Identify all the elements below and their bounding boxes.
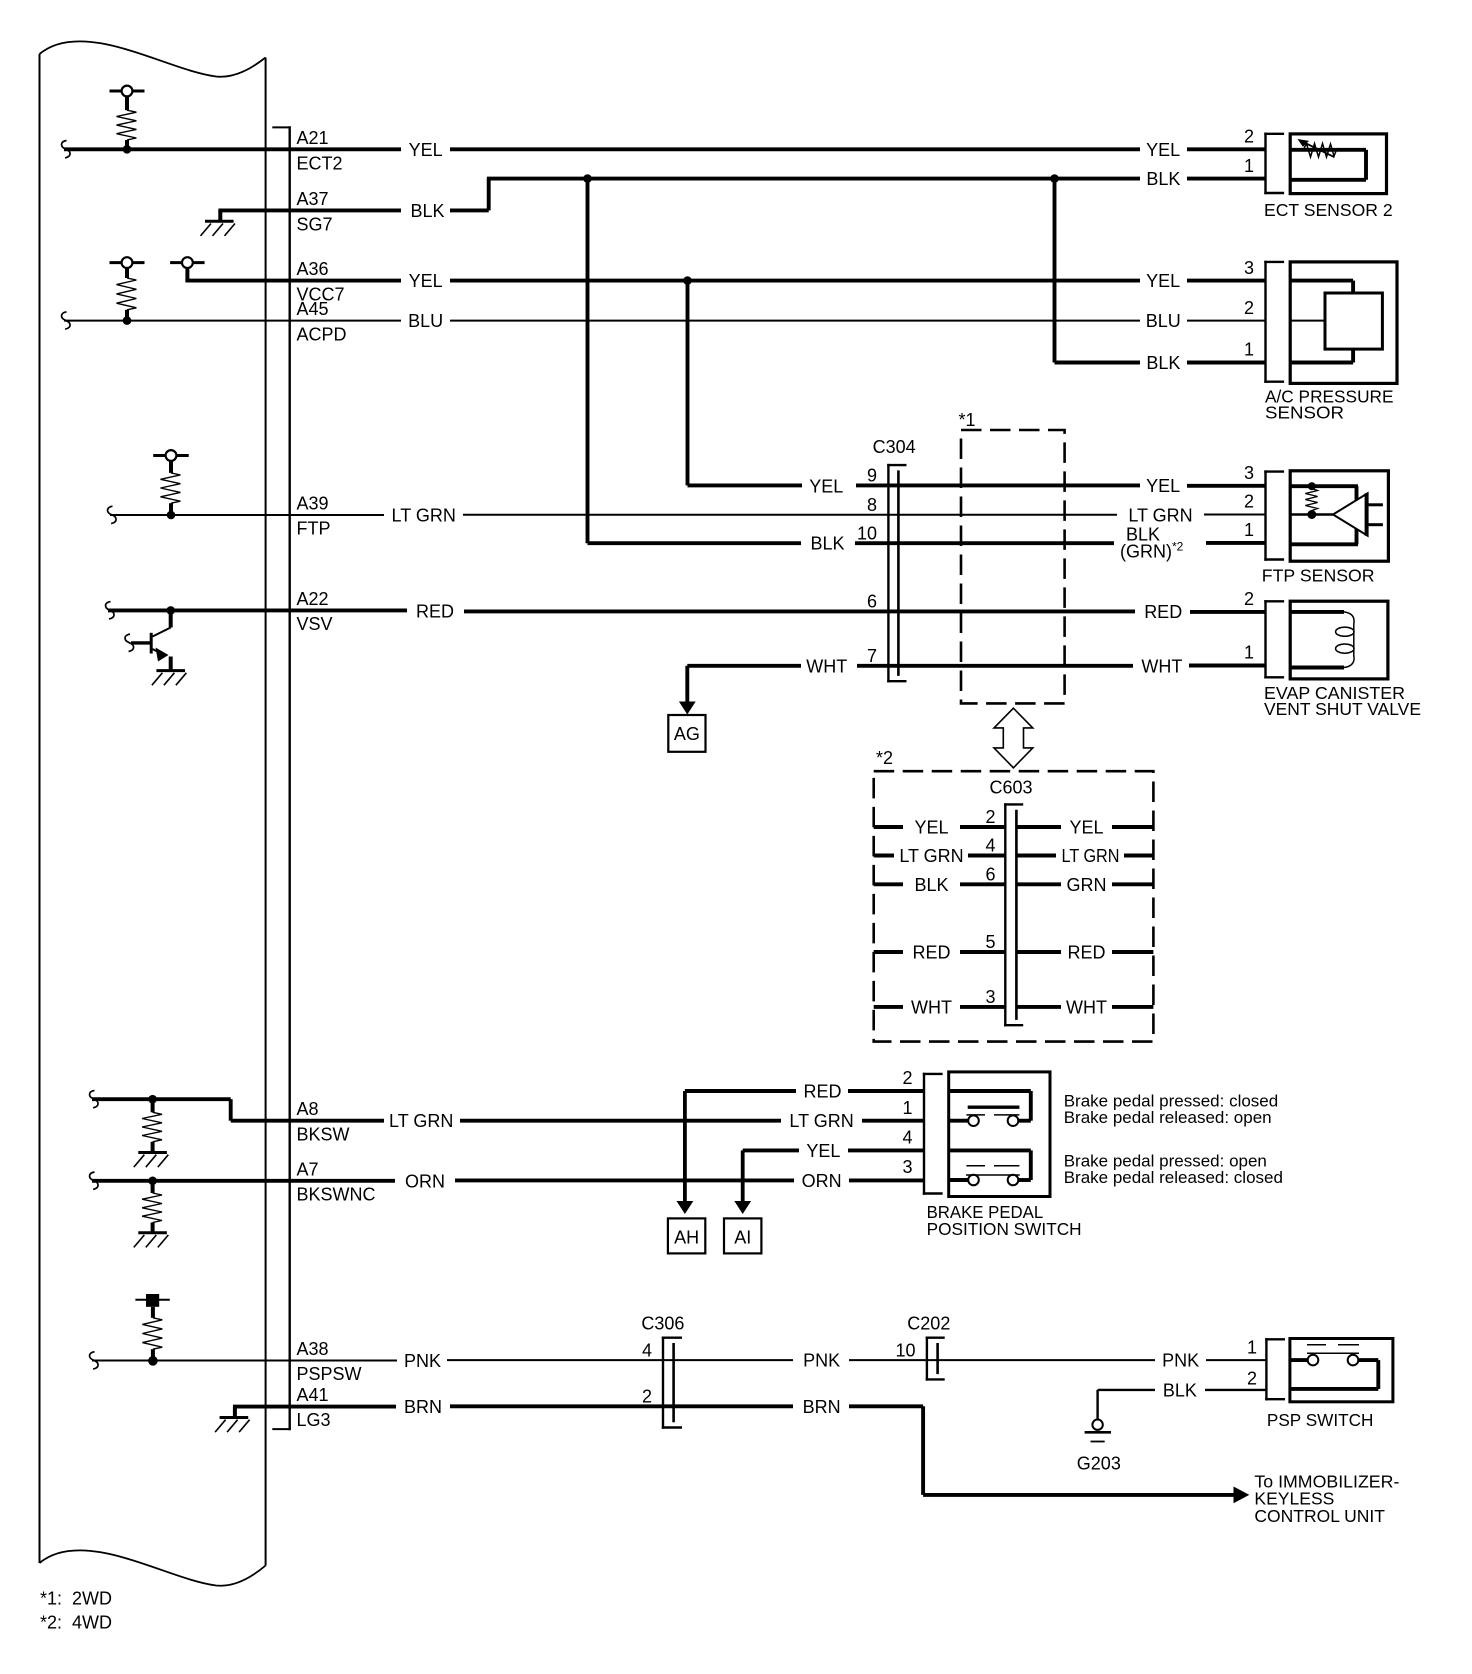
brake switch upper contact (pins 2-1) bbox=[949, 1091, 1031, 1126]
wire A37 BLK segment (ECM) bbox=[218, 208, 401, 212]
solenoid coil EVAP valve bbox=[1290, 612, 1354, 668]
label RED (A22) bbox=[416, 601, 454, 621]
wire C603 pin 2 right stub bbox=[1112, 825, 1153, 829]
wire C603 pin 5 left segment bbox=[960, 950, 1005, 954]
svg-text:7: 7 bbox=[867, 646, 877, 666]
connector bracket EVAP valve bbox=[1264, 600, 1284, 678]
svg-text:AG: AG bbox=[674, 724, 700, 744]
wire C603 pin 6 right segment bbox=[1016, 882, 1061, 886]
pin label A36/VCC7 bbox=[297, 259, 345, 304]
ECM/PCM torn top edge (wave) bbox=[40, 41, 266, 76]
wire BLK to C304 bbox=[588, 541, 802, 545]
label BLK (ECT sensor 2 pin 1) bbox=[1146, 169, 1180, 189]
pull-down resistor at pin A8 bbox=[134, 1095, 169, 1167]
label BLK (C603 pin 6 left) bbox=[914, 875, 948, 895]
svg-text:C304: C304 bbox=[873, 437, 916, 457]
wire C603 pin 2 left segment bbox=[960, 825, 1005, 829]
label YEL (ECT sensor 2 pin 2) bbox=[1146, 140, 1180, 160]
label RED (C603 pin 5 right) bbox=[1067, 943, 1105, 963]
svg-text:C202: C202 bbox=[907, 1313, 950, 1333]
wire A7 ORN segment bbox=[455, 1178, 794, 1182]
svg-text:1: 1 bbox=[1244, 340, 1254, 360]
connector bracket FTP sensor bbox=[1264, 470, 1284, 560]
label BRN (A41) bbox=[404, 1397, 442, 1417]
wire RED stub to EVAP valve bbox=[1190, 610, 1266, 614]
wire A21 YEL stub to ECT sensor 2 bbox=[1187, 147, 1266, 151]
svg-text:PNK: PNK bbox=[404, 1351, 441, 1371]
svg-text:ECT SENSOR 2: ECT SENSOR 2 bbox=[1264, 200, 1393, 220]
ECM pin header bracket bbox=[272, 126, 289, 1430]
label YEL (A21 left) bbox=[409, 140, 443, 160]
label ORN (brake switch pin 3) bbox=[802, 1171, 842, 1191]
svg-text:2: 2 bbox=[642, 1387, 652, 1407]
svg-text:C603: C603 bbox=[990, 778, 1033, 798]
wire A8 LT GRN segment bbox=[460, 1119, 781, 1123]
wire C603 pin 5 right stub bbox=[1112, 950, 1153, 954]
wire A38 PNK segment (ECM) bbox=[92, 1360, 397, 1362]
wire BLK drop to A-C pressure sensor bbox=[1055, 179, 1141, 363]
wire A41 BRN segment (ECM) bbox=[233, 1405, 396, 1409]
svg-text:G203: G203 bbox=[1077, 1453, 1121, 1473]
label GRN (C603 pin 6 right) bbox=[1067, 875, 1107, 895]
pull-down resistor at pin A7 bbox=[134, 1177, 169, 1248]
connector C304 bbox=[887, 464, 906, 683]
svg-text:RED: RED bbox=[912, 943, 950, 963]
svg-text:WHT: WHT bbox=[1141, 656, 1182, 676]
wire YEL corner to brake switch bbox=[743, 1150, 799, 1201]
wire break A45 bbox=[62, 312, 71, 329]
svg-text:FTP SENSOR: FTP SENSOR bbox=[1262, 566, 1375, 586]
wire RED corner to brake switch bbox=[685, 1091, 796, 1201]
pin number 3 (FTP sensor) bbox=[1244, 463, 1254, 483]
label BLK (A37) bbox=[410, 201, 444, 221]
pin number 1 (EVAP valve) bbox=[1244, 643, 1254, 663]
wire A22 RED segment bbox=[464, 609, 1135, 613]
connector C306 bbox=[662, 1337, 682, 1429]
label WHT (C304 pin 7) bbox=[806, 656, 847, 676]
svg-text:4: 4 bbox=[642, 1340, 652, 1360]
pin number 10 (C202) bbox=[895, 1340, 915, 1360]
pin number 4 (C603) bbox=[985, 836, 995, 856]
label *2 bbox=[876, 748, 893, 768]
svg-text:1: 1 bbox=[1244, 156, 1254, 176]
wire ORN stub to brake switch bbox=[849, 1178, 924, 1182]
component box A-C pressure sensor bbox=[1290, 262, 1397, 384]
pin label A8/BKSW bbox=[297, 1099, 350, 1144]
svg-text:PSPSW: PSPSW bbox=[297, 1364, 362, 1384]
svg-text:LG3: LG3 bbox=[297, 1410, 331, 1430]
wire A39 LT GRN segment bbox=[463, 514, 1117, 516]
svg-text:10: 10 bbox=[857, 523, 877, 543]
pin number 3 (A-C sensor) bbox=[1244, 258, 1254, 278]
label PNK (A38) bbox=[404, 1351, 441, 1371]
svg-text:YEL: YEL bbox=[914, 818, 948, 838]
wire WHT corner to C304 bbox=[687, 666, 801, 703]
ECM/PCM module left edge bbox=[39, 54, 41, 1563]
wire C603 pin 6 left segment bbox=[960, 882, 1005, 886]
double arrow (alternative link) bbox=[994, 708, 1033, 768]
connector box AI bbox=[724, 1218, 761, 1253]
wire YEL vertical drop bbox=[686, 281, 690, 486]
junction dot BLK bus / FTP branch bbox=[583, 174, 592, 183]
pin number 6 (C304) bbox=[867, 592, 877, 612]
label ECT SENSOR 2 bbox=[1264, 200, 1393, 220]
svg-text:YEL: YEL bbox=[806, 1141, 840, 1161]
svg-text:4: 4 bbox=[902, 1128, 912, 1148]
svg-text:2: 2 bbox=[1244, 492, 1254, 512]
svg-text:BLU: BLU bbox=[408, 311, 443, 331]
pin number 10 (C304) bbox=[857, 523, 877, 543]
label AG bbox=[674, 724, 700, 744]
wire A22 RED segment (ECM) bbox=[108, 608, 407, 612]
pull-up resistor at pin A38 bbox=[135, 1294, 169, 1366]
svg-text:4: 4 bbox=[985, 836, 995, 856]
wire YEL stub to FTP sensor bbox=[1187, 484, 1266, 488]
label BLU (A45) bbox=[408, 311, 443, 331]
connector C603 bbox=[1004, 803, 1023, 1026]
pin number 4 (C306) bbox=[642, 1340, 652, 1360]
label YEL (C603 pin 2 left) bbox=[914, 818, 948, 838]
wire C603 pin 4 left segment bbox=[968, 854, 1005, 858]
wire WHT stub to EVAP valve bbox=[1189, 664, 1266, 668]
label LT GRN (brake switch pin 1) bbox=[789, 1111, 853, 1131]
label YEL (brake switch pin 4) bbox=[806, 1141, 840, 1161]
svg-text:2: 2 bbox=[1244, 298, 1254, 318]
svg-text:YEL: YEL bbox=[1146, 271, 1180, 291]
svg-text:A39: A39 bbox=[297, 494, 329, 514]
pin label A7/BKSWNC bbox=[297, 1159, 376, 1204]
wire LT GRN stub to brake switch bbox=[862, 1119, 924, 1123]
ECM/PCM torn bottom edge (wave) bbox=[40, 1550, 266, 1585]
wire PNK stub to PSP switch bbox=[1206, 1359, 1266, 1361]
svg-text:RED: RED bbox=[416, 601, 454, 621]
svg-text:1: 1 bbox=[1247, 1337, 1257, 1357]
svg-text:RED: RED bbox=[1144, 602, 1182, 622]
pin number 5 (C603) bbox=[985, 932, 995, 952]
label YEL (C603 pin 2 right) bbox=[1069, 818, 1103, 838]
wire break A21 bbox=[62, 141, 71, 158]
label YEL (C304 pin 9) bbox=[809, 477, 843, 497]
ground at pin A41 (LG3) bbox=[215, 1407, 250, 1433]
component box EVAP valve bbox=[1290, 601, 1388, 679]
label YEL (FTP sensor pin 3) bbox=[1146, 476, 1180, 496]
wire YEL through C304 bbox=[856, 483, 1140, 487]
wire break A39 bbox=[108, 506, 117, 523]
pin label A45/ACPD bbox=[297, 299, 347, 344]
wire PNK C202 segment bbox=[849, 1359, 1155, 1361]
label PNK (C306 pin 4) bbox=[803, 1351, 840, 1371]
svg-text:WHT: WHT bbox=[1066, 997, 1107, 1017]
pin number 2 (A-C sensor) bbox=[1244, 298, 1254, 318]
wire A45 BLU stub to A-C pressure sensor bbox=[1187, 320, 1266, 322]
wire A45 BLU segment (ECM) bbox=[64, 320, 401, 322]
wire BLK through C304 bbox=[855, 541, 1114, 545]
arrow to immobilizer-keyless control unit bbox=[1234, 1487, 1250, 1504]
svg-text:ORN: ORN bbox=[802, 1171, 842, 1191]
svg-text:GRN: GRN bbox=[1067, 875, 1107, 895]
svg-text:YEL: YEL bbox=[809, 477, 843, 497]
junction dot BLK bus / A-C sensor branch bbox=[1050, 174, 1059, 183]
label PNK (PSP switch pin 1) bbox=[1162, 1351, 1199, 1371]
label EVAP CANISTER VENT SHUT VALVE bbox=[1264, 683, 1421, 719]
pin number 3 (C603) bbox=[985, 987, 995, 1007]
svg-text:*2: 4WD: *2: 4WD bbox=[40, 1612, 112, 1632]
svg-text:BLK: BLK bbox=[1146, 353, 1180, 373]
svg-text:*2: *2 bbox=[876, 748, 893, 768]
pin number 2 (ECT sensor 2) bbox=[1244, 127, 1254, 147]
svg-text:6: 6 bbox=[985, 865, 995, 885]
svg-text:ECT2: ECT2 bbox=[297, 154, 343, 174]
svg-text:LT GRN: LT GRN bbox=[899, 846, 963, 866]
wire C603 pin 6 right stub bbox=[1112, 882, 1153, 886]
thermistor ECT sensor 2 bbox=[1290, 139, 1366, 180]
label BLK (GRN) (FTP sensor pin 1) bbox=[1120, 524, 1184, 561]
wire YEL to C304 bbox=[688, 483, 803, 487]
svg-text:RED: RED bbox=[1067, 943, 1105, 963]
svg-text:1: 1 bbox=[902, 1098, 912, 1118]
component box brake switch bbox=[949, 1072, 1050, 1197]
svg-text:A7: A7 bbox=[297, 1159, 319, 1179]
label To IMMOBILIZER-KEYLESS CONTROL UNIT bbox=[1254, 1471, 1399, 1526]
svg-text:2: 2 bbox=[985, 807, 995, 827]
svg-text:10: 10 bbox=[895, 1340, 915, 1360]
svg-text:*2: *2 bbox=[1172, 540, 1184, 554]
wire C603 pin 3 left segment bbox=[960, 1005, 1005, 1009]
svg-text:AH: AH bbox=[674, 1227, 699, 1247]
wire break A22 bbox=[106, 602, 115, 619]
svg-text:1: 1 bbox=[1244, 643, 1254, 663]
label BRAKE PEDAL POSITION SWITCH bbox=[927, 1202, 1082, 1239]
pin number 1 (PSP switch) bbox=[1247, 1337, 1257, 1357]
svg-text:BLK: BLK bbox=[1146, 169, 1180, 189]
label LT GRN (A8) bbox=[389, 1111, 453, 1131]
pin label A21/ECT2 bbox=[297, 128, 343, 174]
pin number 3 (brake switch) bbox=[902, 1157, 912, 1177]
svg-text:BKSW: BKSW bbox=[297, 1124, 350, 1144]
wire BLK stub to FTP sensor bbox=[1206, 541, 1266, 545]
wire C603 pin 3 right stub bbox=[1112, 1005, 1153, 1009]
label BLK (A-C pressure sensor pin 1) bbox=[1146, 353, 1180, 373]
connector box AG bbox=[668, 715, 705, 752]
svg-text:BLK: BLK bbox=[914, 875, 948, 895]
label C603 bbox=[990, 778, 1033, 798]
wire BRN to immobilizer corner bbox=[849, 1406, 1234, 1495]
note brake pedal upper bbox=[1064, 1091, 1279, 1127]
svg-text:C306: C306 bbox=[641, 1313, 684, 1333]
junction dot YEL bus bbox=[683, 276, 692, 285]
pin number 4 (brake switch) bbox=[902, 1128, 912, 1148]
pin number 2 (C306) bbox=[642, 1387, 652, 1407]
svg-text:YEL: YEL bbox=[1069, 818, 1103, 838]
wire A7 ORN segment (ECM) bbox=[92, 1179, 395, 1183]
wire YEL stub to brake switch bbox=[848, 1148, 924, 1152]
svg-text:ACPD: ACPD bbox=[297, 324, 347, 344]
svg-text:1: 1 bbox=[1244, 520, 1254, 540]
wire A36 YEL stub to A-C pressure sensor bbox=[1187, 279, 1266, 283]
wire A38 PNK segment bbox=[447, 1359, 793, 1361]
wire C603 pin 2 right segment bbox=[1016, 825, 1061, 829]
svg-text:6: 6 bbox=[867, 592, 877, 612]
label *1 bbox=[959, 410, 976, 430]
svg-text:RED: RED bbox=[803, 1082, 841, 1102]
svg-text:A36: A36 bbox=[297, 259, 329, 279]
wire A41 BRN segment bbox=[450, 1404, 793, 1408]
wire break A8 bbox=[90, 1090, 99, 1107]
svg-text:WHT: WHT bbox=[806, 656, 847, 676]
label AH bbox=[674, 1227, 699, 1247]
brake switch lower contact (pins 4-3) bbox=[949, 1150, 1031, 1185]
ground G203 bbox=[1085, 1420, 1111, 1442]
svg-text:FTP: FTP bbox=[297, 519, 331, 539]
label WHT (C603 pin 3 right) bbox=[1066, 997, 1107, 1017]
svg-text:BRN: BRN bbox=[803, 1397, 841, 1417]
pin number 2 (C603) bbox=[985, 807, 995, 827]
pin number 1 (A-C sensor) bbox=[1244, 340, 1254, 360]
pin number 1 (FTP sensor) bbox=[1244, 520, 1254, 540]
footnote *2 4WD bbox=[40, 1612, 112, 1632]
label PSP SWITCH bbox=[1267, 1410, 1374, 1430]
svg-text:BRN: BRN bbox=[404, 1397, 442, 1417]
label YEL (A36) bbox=[409, 271, 443, 291]
label A/C PRESSURE SENSOR bbox=[1265, 386, 1394, 422]
wire C603 pin 3 left stub bbox=[874, 1005, 903, 1009]
pin number 2 (EVAP valve) bbox=[1244, 589, 1254, 609]
pin number 7 (C304) bbox=[867, 646, 877, 666]
label WHT (C603 pin 3 left) bbox=[911, 997, 952, 1017]
wire A45 BLU long segment bbox=[450, 320, 1140, 322]
pin number 2 (FTP sensor) bbox=[1244, 492, 1254, 512]
wire A37 BLK elbow up to BLK bus bbox=[450, 179, 1140, 211]
pin label A41/LG3 bbox=[297, 1385, 331, 1430]
wire A8 LT GRN segment (ECM) bbox=[92, 1099, 384, 1121]
svg-text:2: 2 bbox=[1244, 127, 1254, 147]
label C304 bbox=[873, 437, 916, 457]
component box ECT sensor 2 bbox=[1290, 134, 1386, 194]
pin number 2 (brake switch) bbox=[902, 1068, 912, 1088]
wire C603 pin 4 left stub bbox=[874, 854, 894, 858]
svg-text:9: 9 bbox=[867, 466, 877, 486]
label BLK (C304 pin 10) bbox=[810, 534, 844, 554]
svg-text:YEL: YEL bbox=[1146, 140, 1180, 160]
svg-text:(GRN): (GRN) bbox=[1120, 541, 1172, 561]
pull-up resistor at pin A39 bbox=[153, 450, 189, 519]
connector C202 bbox=[926, 1337, 945, 1381]
pin number 9 (C304) bbox=[867, 466, 877, 486]
svg-text:VENT SHUT VALVE: VENT SHUT VALVE bbox=[1264, 699, 1421, 719]
svg-text:A41: A41 bbox=[297, 1385, 329, 1405]
wire break A7 bbox=[90, 1172, 99, 1189]
wire C603 pin 4 right stub bbox=[1124, 854, 1153, 858]
label BLK (PSP switch pin 2) bbox=[1163, 1380, 1197, 1400]
ECM/PCM module right edge bbox=[265, 58, 267, 1566]
svg-text:PNK: PNK bbox=[803, 1351, 840, 1371]
svg-text:BLK: BLK bbox=[1163, 1380, 1197, 1400]
label RED (brake switch pin 2) bbox=[803, 1082, 841, 1102]
PSP switch contact bbox=[1290, 1345, 1378, 1389]
svg-text:BLK: BLK bbox=[410, 201, 444, 221]
svg-text:AI: AI bbox=[734, 1227, 751, 1247]
label RED (C603 pin 5 left) bbox=[912, 943, 950, 963]
svg-text:YEL: YEL bbox=[409, 271, 443, 291]
FTP sensor element bbox=[1290, 482, 1383, 544]
label ORN (A7) bbox=[405, 1171, 445, 1191]
label YEL (A-C pressure sensor pin 3) bbox=[1146, 271, 1180, 291]
label LT GRN (A39) bbox=[392, 506, 456, 526]
transistor Q (VSV driver) bbox=[125, 606, 186, 685]
component box PSP switch bbox=[1290, 1339, 1393, 1402]
svg-text:5: 5 bbox=[985, 932, 995, 952]
pin label A38/PSPSW bbox=[297, 1339, 362, 1384]
wire BLK vertical drop bbox=[586, 179, 590, 544]
wire A36 YEL segment (ECM) bbox=[185, 279, 401, 283]
label RED (EVAP valve pin 2) bbox=[1144, 602, 1182, 622]
label AI bbox=[734, 1227, 751, 1247]
wire WHT through C304 bbox=[857, 664, 1133, 668]
pull-up resistor at pin A21 bbox=[110, 86, 145, 154]
wire C603 pin 5 left stub bbox=[874, 950, 903, 954]
svg-text:2: 2 bbox=[1247, 1369, 1257, 1389]
svg-text:Brake pedal released: open: Brake pedal released: open bbox=[1064, 1108, 1272, 1127]
svg-text:VSV: VSV bbox=[297, 614, 333, 634]
svg-text:BKSWNC: BKSWNC bbox=[297, 1185, 376, 1205]
svg-text:2: 2 bbox=[902, 1068, 912, 1088]
connector box AH bbox=[668, 1218, 705, 1253]
svg-text:LT GRN: LT GRN bbox=[389, 1111, 453, 1131]
arrow to AI bbox=[734, 1201, 751, 1214]
svg-text:SENSOR: SENSOR bbox=[1265, 402, 1344, 422]
wire C603 pin 4 right segment bbox=[1016, 854, 1056, 858]
svg-text:8: 8 bbox=[867, 495, 877, 515]
label LT GRN (C603 pin 4 left) bbox=[899, 846, 963, 866]
arrow to AH bbox=[677, 1201, 694, 1214]
wire A36 YEL long segment bbox=[450, 279, 1140, 283]
svg-text:3: 3 bbox=[902, 1157, 912, 1177]
svg-text:2: 2 bbox=[1244, 589, 1254, 609]
wire C603 pin 3 right segment bbox=[1016, 1005, 1061, 1009]
label BLU (A-C pressure sensor pin 2) bbox=[1146, 311, 1181, 331]
svg-text:SG7: SG7 bbox=[297, 215, 333, 235]
wire A21 YEL segment (ECM) bbox=[64, 147, 401, 151]
svg-text:POSITION SWITCH: POSITION SWITCH bbox=[927, 1219, 1082, 1239]
svg-text:Brake pedal released: closed: Brake pedal released: closed bbox=[1064, 1168, 1283, 1187]
note brake pedal lower bbox=[1064, 1151, 1283, 1187]
pin label A39/FTP bbox=[297, 494, 331, 539]
svg-text:LT GRN: LT GRN bbox=[1128, 505, 1192, 525]
label C202 bbox=[907, 1313, 950, 1333]
svg-text:LT GRN: LT GRN bbox=[789, 1111, 853, 1131]
svg-text:LT GRN: LT GRN bbox=[1062, 846, 1120, 866]
svg-text:3: 3 bbox=[1244, 463, 1254, 483]
pin label A37/SG7 bbox=[297, 189, 333, 235]
wire BLK stub to PSP switch bbox=[1205, 1389, 1266, 1391]
arrow to AG bbox=[679, 702, 696, 715]
svg-text:BLK: BLK bbox=[810, 534, 844, 554]
wire RED stub to brake switch bbox=[848, 1089, 924, 1093]
svg-text:*1: *1 bbox=[959, 410, 976, 430]
pin label A22/VSV bbox=[297, 589, 333, 634]
wire BLK stub to A-C pressure sensor pin 1 bbox=[1187, 361, 1266, 365]
svg-text:ORN: ORN bbox=[405, 1171, 445, 1191]
wire C603 pin 5 right segment bbox=[1016, 950, 1061, 954]
pull-up resistor at pin A45 bbox=[110, 257, 145, 325]
label C306 bbox=[641, 1313, 684, 1333]
VCC reference symbol at pin A36 bbox=[170, 257, 205, 280]
label FTP SENSOR bbox=[1262, 566, 1375, 586]
svg-text:PSP SWITCH: PSP SWITCH bbox=[1267, 1410, 1374, 1430]
wire break A38 bbox=[90, 1352, 99, 1369]
svg-text:YEL: YEL bbox=[409, 140, 443, 160]
svg-text:3: 3 bbox=[1244, 258, 1254, 278]
